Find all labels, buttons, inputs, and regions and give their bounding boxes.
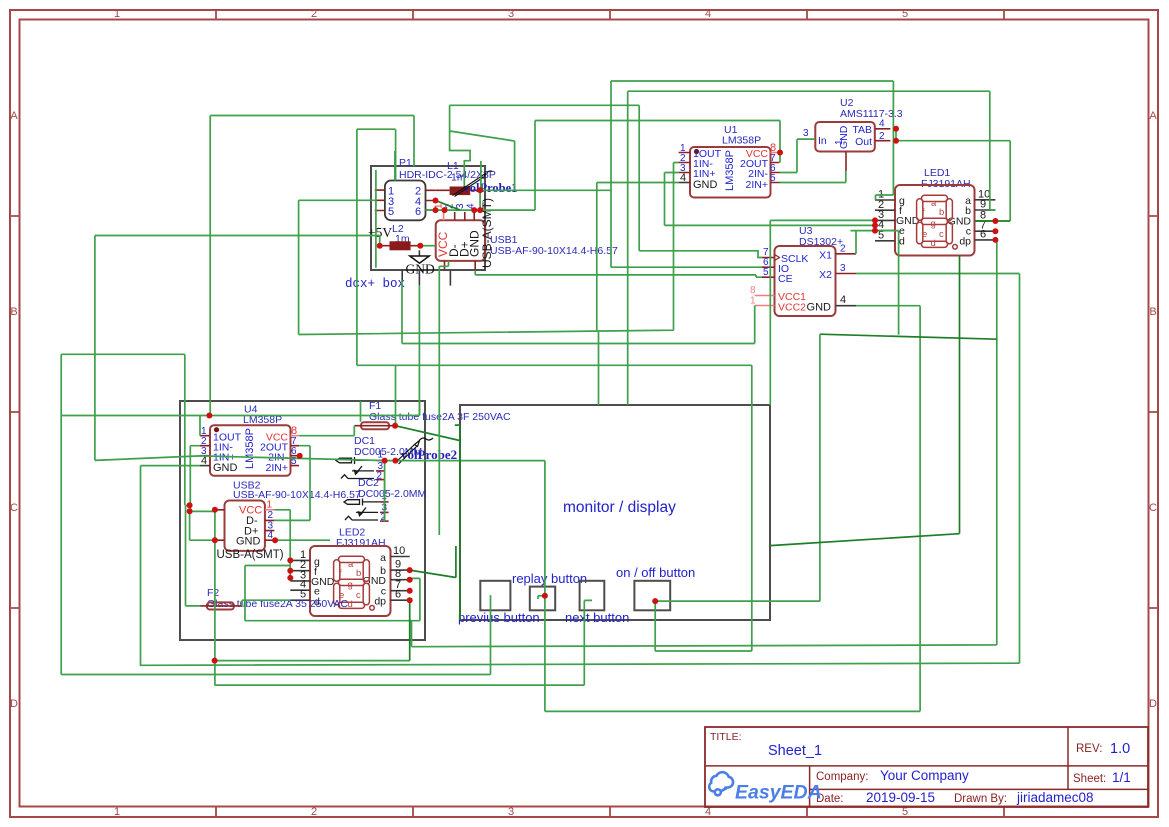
wire U2 out net <box>896 129 1010 221</box>
wire on-off button down <box>357 365 752 651</box>
svg-text:jiriadamec08: jiriadamec08 <box>1016 790 1094 805</box>
svg-text:C: C <box>1149 502 1157 514</box>
LED display LED2 FJ3191AH <box>290 545 409 616</box>
wire U1 2IN- to U2 In <box>780 139 816 172</box>
svg-text:a: a <box>380 552 386 564</box>
svg-text:D: D <box>10 698 18 710</box>
svg-text:B: B <box>10 306 17 318</box>
svg-text:4: 4 <box>705 8 711 20</box>
svg-text:c: c <box>356 590 361 601</box>
svg-text:GND: GND <box>213 462 238 474</box>
svg-text:GND: GND <box>838 125 850 149</box>
svg-text:USB-AF-90-10X14.4-H6.57: USB-AF-90-10X14.4-H6.57 <box>490 245 618 257</box>
wire GND seg net <box>426 210 876 405</box>
fuse F2 <box>201 602 242 609</box>
svg-text:1: 1 <box>750 296 756 307</box>
svg-text:In: In <box>818 135 827 147</box>
wire U4 GND net <box>140 466 1020 666</box>
svg-text:LM358P: LM358P <box>724 150 736 191</box>
svg-text:b: b <box>356 568 361 579</box>
svg-text:Company:: Company: <box>816 771 868 783</box>
LED1 seven-segment figure <box>917 195 958 249</box>
wire left tall vertical <box>61 170 376 675</box>
fuse F1 <box>354 422 395 429</box>
wire X1 net <box>851 231 899 335</box>
svg-text:a: a <box>931 198 937 209</box>
svg-text:B: B <box>1149 306 1156 318</box>
wire L2 to USB1 <box>420 245 435 247</box>
title block <box>705 727 1148 807</box>
wire USB2 left drop <box>214 510 216 685</box>
svg-text:3: 3 <box>508 806 514 818</box>
svg-text:Out: Out <box>855 136 872 148</box>
svg-text:X1: X1 <box>819 250 832 262</box>
wire USB2 VCC to LED2 <box>274 510 290 581</box>
wire monitor diagonal <box>770 255 960 545</box>
svg-text:monitor / display: monitor / display <box>563 499 676 516</box>
svg-text:FJ3191AH: FJ3191AH <box>336 537 386 549</box>
svg-text:1/1: 1/1 <box>1112 770 1131 785</box>
svg-text:USB-A(SMT): USB-A(SMT) <box>217 549 284 561</box>
wire DC bus <box>384 461 386 521</box>
svg-text:5: 5 <box>902 8 908 20</box>
wire replay button stub <box>538 596 545 599</box>
svg-text:4: 4 <box>680 172 686 184</box>
svg-text:Sheet_1: Sheet_1 <box>768 743 822 759</box>
svg-text:GND: GND <box>693 179 718 191</box>
svg-text:TITLE:: TITLE: <box>710 731 742 743</box>
wire U4 1OUT net <box>61 401 419 436</box>
svg-text:f: f <box>339 568 342 579</box>
wire USB1 bottom hook <box>439 261 448 535</box>
svg-text:DC005-2.0MM: DC005-2.0MM <box>358 488 426 500</box>
svg-text:VCC2: VCC2 <box>778 302 806 314</box>
wire P1 pin4 diagonal <box>436 201 461 211</box>
svg-text:d: d <box>348 599 353 610</box>
op-amp U1 LM358P <box>679 142 780 198</box>
probe volProbe1 icon <box>453 171 493 197</box>
svg-text:e: e <box>922 229 927 240</box>
wire F1 net <box>299 285 419 436</box>
wire volProbe2 long net <box>95 456 545 712</box>
svg-text:1: 1 <box>114 806 120 818</box>
svg-text:Drawn By:: Drawn By: <box>954 793 1007 805</box>
svg-text:6: 6 <box>395 589 401 601</box>
svg-text:Sheet:: Sheet: <box>1073 773 1106 785</box>
svg-text:Your Company: Your Company <box>880 768 969 783</box>
svg-text:on / off button: on / off button <box>616 565 695 580</box>
svg-text:dp: dp <box>374 596 386 608</box>
svg-text:1: 1 <box>267 500 273 511</box>
svg-text:c: c <box>939 229 944 240</box>
svg-text:dp: dp <box>959 236 971 248</box>
EasyEDA logo <box>709 772 822 803</box>
wire U1 GND net <box>299 163 679 406</box>
wire U4 2OUT to USB2 D- <box>274 446 310 521</box>
svg-text:D: D <box>1149 698 1157 710</box>
svg-text:4: 4 <box>840 294 846 306</box>
svg-text:2: 2 <box>268 510 274 521</box>
wire VCC U1 net <box>475 121 780 278</box>
dcx+ box container <box>371 166 485 270</box>
wire y645 long net <box>412 240 997 647</box>
connector P1 HDR-IDC-2.54-2X3P <box>375 181 436 221</box>
replay button <box>530 587 555 611</box>
svg-text:GND: GND <box>406 262 435 277</box>
wire F2 right lead net <box>242 600 291 606</box>
DC jack DC1 <box>336 450 385 482</box>
svg-text:LM358P: LM358P <box>244 428 256 469</box>
svg-text:6: 6 <box>980 228 986 240</box>
inductor L1 <box>436 187 480 196</box>
svg-text:8: 8 <box>750 285 756 296</box>
wire U3 GND net <box>545 306 920 712</box>
svg-text:A: A <box>1149 110 1157 122</box>
svg-text:L1: L1 <box>447 160 459 172</box>
wire F1 diagonal <box>395 426 460 441</box>
svg-text:4: 4 <box>879 119 885 130</box>
svg-text:2: 2 <box>381 512 387 523</box>
svg-text:X2: X2 <box>819 269 832 281</box>
wire VCC2 net <box>357 129 755 365</box>
svg-text:10: 10 <box>393 545 405 557</box>
wire monitor left edge drop <box>455 425 460 620</box>
wire on-off button right <box>655 334 820 601</box>
previous button <box>480 581 510 611</box>
svg-text:2: 2 <box>311 8 317 20</box>
wire USB2 GND right <box>275 539 330 541</box>
svg-text:2: 2 <box>879 131 885 142</box>
svg-text:A: A <box>10 110 18 122</box>
svg-text:2IN+: 2IN+ <box>746 179 768 191</box>
svg-text:g: g <box>348 580 353 591</box>
svg-text:C: C <box>10 502 18 514</box>
DC jack DC2 <box>344 491 389 523</box>
regulator U2 AMS1117-3.3 <box>797 119 890 172</box>
LED2 seven-segment figure <box>334 556 375 610</box>
svg-text:5: 5 <box>388 206 394 218</box>
wire U4 2IN- to next button <box>215 600 592 685</box>
svg-text:a: a <box>348 559 354 570</box>
wire +5V net <box>95 236 380 461</box>
wire U4 1IN- net <box>186 446 215 606</box>
monitor / display module box <box>460 405 770 620</box>
svg-text:EasyEDA: EasyEDA <box>735 782 822 804</box>
ground symbol GND (dcx box) <box>406 250 435 276</box>
svg-text:previus button: previus button <box>458 610 540 625</box>
svg-text:1.0: 1.0 <box>1110 741 1130 757</box>
svg-text:3: 3 <box>840 263 846 274</box>
svg-text:P1: P1 <box>399 157 412 169</box>
wire volProbe1 riser <box>481 141 515 190</box>
wire on-off diagonal net <box>820 334 997 339</box>
svg-text:b: b <box>939 207 944 218</box>
probe volProbe2 icon <box>396 438 433 464</box>
outer module box (bottom-left) <box>180 401 425 640</box>
wire USB1 pin risers <box>445 190 481 213</box>
svg-text:LM358P: LM358P <box>722 135 761 147</box>
svg-text:1: 1 <box>114 8 120 20</box>
svg-text:replay button: replay button <box>512 571 587 586</box>
svg-text:next button: next button <box>565 610 629 625</box>
svg-text:REV:: REV: <box>1076 743 1102 755</box>
svg-text:GND: GND <box>807 302 832 314</box>
wire L1 to IO riser <box>480 189 611 191</box>
wire net top-left vertical <box>210 116 414 416</box>
LED display LED1 FJ3191AH <box>875 185 995 256</box>
wire e-segment net <box>665 173 876 226</box>
next button <box>580 581 605 611</box>
svg-text:2019-09-15: 2019-09-15 <box>866 790 935 805</box>
svg-text:2: 2 <box>840 244 846 255</box>
wire P1 top entry <box>394 151 396 181</box>
wire LED1 GND right <box>975 220 1011 222</box>
svg-text:d: d <box>899 236 905 248</box>
USB connector USB1 <box>434 198 495 270</box>
USB connector USB2 <box>214 500 284 562</box>
wire y91 net <box>628 91 996 405</box>
wire LED2 b diagonal <box>410 546 456 578</box>
dcx box port stubs <box>402 270 450 286</box>
wire previous button net <box>61 595 490 674</box>
wire DC2 drop <box>384 480 386 521</box>
op-amp U4 LM358P <box>200 425 299 476</box>
svg-text:3: 3 <box>803 128 809 139</box>
svg-text:dcx+ box: dcx+ box <box>345 277 405 291</box>
svg-text:USB-AF-90-10X14.4-H6.57: USB-AF-90-10X14.4-H6.57 <box>233 489 361 501</box>
wire U2 GND to U1 2IN+ <box>780 171 846 183</box>
svg-text:2: 2 <box>311 806 317 818</box>
svg-text:5: 5 <box>770 173 776 184</box>
wire g-segment net (y81) <box>611 81 893 267</box>
svg-text:5: 5 <box>763 267 769 278</box>
wire SCLK net <box>450 105 762 257</box>
svg-text:g: g <box>931 219 936 230</box>
svg-text:6: 6 <box>415 206 421 218</box>
svg-text:2IN+: 2IN+ <box>266 462 288 474</box>
svg-text:d: d <box>931 238 936 249</box>
svg-text:f: f <box>922 207 925 218</box>
wire X2 net <box>856 274 1020 664</box>
RTC U3 DS1302+ <box>750 244 856 317</box>
on / off button <box>634 581 670 611</box>
svg-text:3: 3 <box>508 8 514 20</box>
svg-text:TAB: TAB <box>852 124 872 136</box>
inductor L2 <box>380 241 421 250</box>
svg-text:GND: GND <box>236 536 261 548</box>
wire LED2 f loop <box>245 566 420 621</box>
wire LED2 dp drop <box>409 600 411 660</box>
svg-text:CE: CE <box>778 273 793 285</box>
